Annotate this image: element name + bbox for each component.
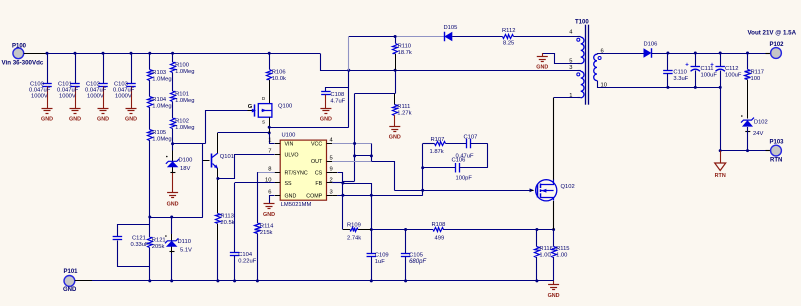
resistor R112 8.25 bbox=[452, 28, 577, 47]
svg-text:1000V: 1000V bbox=[115, 94, 132, 100]
svg-text:R109: R109 bbox=[347, 223, 361, 229]
pin 6 (GND) bbox=[268, 190, 280, 196]
pin 10 (SS) bbox=[265, 177, 280, 183]
resistor R100 1.0Meg bbox=[171, 53, 195, 75]
svg-text:1: 1 bbox=[569, 93, 572, 99]
svg-text:GND: GND bbox=[389, 135, 401, 141]
svg-text:R106: R106 bbox=[272, 70, 286, 76]
capacitor C104 0.22uF bbox=[230, 183, 257, 283]
svg-text:R105: R105 bbox=[152, 130, 166, 136]
svg-text:215k: 215k bbox=[260, 230, 273, 236]
wire: gate drive rail to Q102 bbox=[394, 188, 534, 192]
pin 5 (OUT) bbox=[327, 155, 333, 161]
wire: zener bias rail (C121/R121/D110 to base) bbox=[148, 216, 203, 219]
transistor Q100 (startup FET) bbox=[248, 80, 293, 125]
wire: FB pin 2 connection bbox=[332, 182, 373, 254]
svg-text:10: 10 bbox=[601, 83, 607, 89]
svg-text:100uF: 100uF bbox=[725, 73, 742, 79]
svg-text:ULVO: ULVO bbox=[285, 153, 299, 159]
resistor R117 100 bbox=[745, 53, 764, 119]
pin 7 (ULVO) bbox=[268, 149, 280, 155]
svg-text:20.5k: 20.5k bbox=[220, 220, 234, 226]
svg-text:2.74k: 2.74k bbox=[347, 236, 361, 242]
svg-text:R117: R117 bbox=[751, 70, 764, 76]
resistor R105 1.0Meg bbox=[148, 107, 172, 143]
svg-text:D105: D105 bbox=[444, 25, 458, 31]
wire: secondary return rail down to RTN bbox=[719, 86, 722, 152]
svg-text:1.0Meg: 1.0Meg bbox=[152, 77, 171, 83]
svg-text:8: 8 bbox=[268, 167, 271, 173]
svg-text:1.0Meg: 1.0Meg bbox=[175, 69, 194, 75]
transformer T100 core bbox=[575, 20, 589, 105]
port P102 (Vout terminal) bbox=[748, 30, 797, 59]
svg-text:1.0Meg: 1.0Meg bbox=[175, 98, 194, 104]
svg-text:D102: D102 bbox=[754, 120, 768, 126]
wire: sense rail bbox=[371, 228, 433, 231]
pin 9 (CS) bbox=[327, 167, 333, 173]
resistor R101 1.0Meg bbox=[171, 73, 195, 105]
svg-text:Vin 36-300Vdc: Vin 36-300Vdc bbox=[2, 60, 44, 67]
wire: output rail (Vout) bbox=[652, 52, 771, 55]
wire: SS line (pin 10) bbox=[235, 182, 281, 184]
svg-text:R115: R115 bbox=[556, 246, 569, 252]
resistor R121 205k bbox=[148, 238, 166, 283]
wire: HV input bus (top rail) bbox=[46, 52, 321, 55]
ground (below C101) bbox=[69, 97, 81, 123]
svg-text:1.87k: 1.87k bbox=[430, 149, 444, 155]
resistor R114 215k bbox=[255, 224, 275, 283]
svg-text:100uF: 100uF bbox=[701, 73, 718, 79]
svg-text:R108: R108 bbox=[432, 222, 446, 228]
svg-text:24V: 24V bbox=[753, 131, 763, 137]
svg-text:GND: GND bbox=[167, 202, 179, 208]
resistor R111 1.27k bbox=[355, 70, 412, 126]
wire: Q102 source to sense resistors bbox=[553, 201, 555, 230]
svg-text:+: + bbox=[710, 63, 714, 69]
svg-text:1000V: 1000V bbox=[87, 94, 104, 100]
capacitor C102 0.047uF 1000V bbox=[85, 53, 108, 99]
svg-text:C106: C106 bbox=[452, 158, 466, 164]
svg-text:7: 7 bbox=[268, 149, 271, 155]
transformer T100 aux winding (pins 4-5) bbox=[569, 30, 584, 65]
ground (below C108) bbox=[320, 109, 332, 123]
svg-text:S: S bbox=[262, 119, 265, 124]
port P100 (Vin input terminal) bbox=[2, 44, 48, 67]
capacitor C105 680pF bbox=[401, 230, 427, 283]
wire: ULVO line (pin 7) to Q101 emitter bbox=[218, 155, 281, 179]
capacitor C112 100uF bbox=[710, 53, 742, 87]
svg-text:RTN: RTN bbox=[715, 173, 726, 179]
resistor R116 1.00 bbox=[535, 230, 553, 283]
svg-text:G: G bbox=[248, 104, 253, 110]
port P101 (GND terminal) bbox=[63, 269, 92, 293]
pin 1 (VIN) bbox=[268, 138, 280, 144]
capacitor C111 100uF bbox=[685, 53, 717, 87]
svg-text:GND: GND bbox=[97, 117, 109, 123]
wire: Q101 emitter node bbox=[216, 168, 219, 213]
svg-text:P103: P103 bbox=[770, 140, 785, 146]
svg-text:100: 100 bbox=[751, 76, 761, 82]
svg-text:C110: C110 bbox=[673, 70, 686, 76]
svg-text:R111: R111 bbox=[397, 104, 410, 110]
wire: Q102 drain to transformer pin 1 bbox=[554, 98, 578, 180]
diode D105 bbox=[444, 25, 458, 41]
svg-text:R100: R100 bbox=[175, 63, 189, 69]
svg-text:R116: R116 bbox=[539, 246, 552, 252]
svg-text:RTN: RTN bbox=[770, 158, 782, 164]
port P103 (RTN terminal) bbox=[770, 140, 785, 164]
svg-text:R121: R121 bbox=[152, 238, 166, 244]
svg-text:R103: R103 bbox=[152, 70, 166, 76]
capacitor C108 4.7uF bbox=[321, 88, 348, 109]
svg-text:1.0Meg: 1.0Meg bbox=[152, 137, 171, 143]
svg-text:U100: U100 bbox=[282, 133, 296, 139]
pin 4 (VCC) bbox=[327, 138, 334, 144]
resistor R107 1.87k bbox=[423, 137, 467, 155]
transistor Q101 (NPN) bbox=[212, 153, 234, 169]
op-amp U100 LM5021MM (PWM controller) bbox=[280, 133, 326, 208]
wire: R105 down to bias box bbox=[149, 140, 151, 237]
svg-text:R110: R110 bbox=[398, 44, 411, 50]
svg-text:Q102: Q102 bbox=[561, 184, 575, 190]
svg-text:5.1V: 5.1V bbox=[180, 248, 192, 254]
pin 2 (FB) bbox=[327, 177, 333, 183]
svg-text:R112: R112 bbox=[502, 28, 515, 34]
svg-text:GND: GND bbox=[285, 193, 297, 199]
svg-text:LM5021MM: LM5021MM bbox=[281, 202, 312, 208]
diode D106 bbox=[644, 42, 658, 58]
wire: CS pin 9 connection bbox=[332, 173, 344, 230]
resistor R115 1.00 bbox=[552, 230, 570, 281]
ground (below C100) bbox=[41, 97, 53, 123]
svg-text:D100: D100 bbox=[179, 158, 193, 164]
wire: COMP pin 3 connection bbox=[332, 190, 423, 195]
svg-text:GND: GND bbox=[69, 117, 81, 123]
capacitor C110 3.3uF bbox=[663, 53, 689, 87]
svg-text:R102: R102 bbox=[175, 119, 189, 125]
svg-text:1.00: 1.00 bbox=[556, 253, 567, 259]
svg-text:RT/SYNC: RT/SYNC bbox=[285, 170, 308, 176]
svg-text:8.25: 8.25 bbox=[503, 41, 514, 47]
resistor R108 499 bbox=[432, 222, 556, 242]
svg-text:Q101: Q101 bbox=[220, 154, 234, 160]
wire: D100 junction to Q101 base / gate jog bbox=[173, 111, 248, 218]
svg-text:499: 499 bbox=[435, 236, 445, 242]
svg-text:9: 9 bbox=[330, 167, 333, 173]
resistor R109 2.74k bbox=[343, 223, 371, 242]
transformer T100 secondary winding (pins 6-10) bbox=[594, 49, 721, 89]
svg-text:205k: 205k bbox=[152, 244, 165, 250]
svg-text:OUT: OUT bbox=[311, 159, 323, 165]
svg-text:6: 6 bbox=[268, 190, 271, 196]
svg-text:C105: C105 bbox=[409, 253, 423, 259]
wire: OUT pin 5 to gate drive bbox=[332, 156, 394, 190]
svg-text:R104: R104 bbox=[152, 97, 167, 103]
wire: Q101 collector to U100 VIN bbox=[218, 131, 281, 153]
ground (below R111) bbox=[389, 127, 401, 141]
svg-text:10.0k: 10.0k bbox=[272, 76, 286, 82]
svg-text:4.7uF: 4.7uF bbox=[330, 99, 345, 105]
svg-text:C107: C107 bbox=[464, 135, 478, 141]
svg-text:1000V: 1000V bbox=[31, 94, 48, 100]
svg-text:R113: R113 bbox=[220, 214, 233, 220]
capacitor C100 0.047uF 1000V bbox=[29, 53, 52, 99]
svg-text:COMP: COMP bbox=[306, 193, 322, 199]
svg-text:10: 10 bbox=[265, 177, 271, 183]
svg-text:GND: GND bbox=[536, 65, 548, 71]
capacitor C109 1uF bbox=[367, 253, 389, 283]
svg-text:SS: SS bbox=[285, 181, 293, 187]
svg-text:18V: 18V bbox=[180, 166, 190, 172]
wire: compensation network sides bbox=[421, 144, 487, 191]
svg-text:680pF: 680pF bbox=[409, 259, 426, 265]
svg-text:0.22uF: 0.22uF bbox=[238, 259, 257, 265]
svg-text:R101: R101 bbox=[175, 92, 189, 98]
pin 3 (COMP) bbox=[327, 190, 333, 196]
wire: VCC rail from Q100 source to D105 bbox=[269, 35, 444, 128]
resistor R106 10.0k bbox=[267, 53, 286, 82]
ground (IC pin 6) bbox=[263, 204, 275, 219]
svg-text:1.0Meg: 1.0Meg bbox=[175, 125, 194, 131]
svg-text:CS: CS bbox=[315, 170, 323, 176]
svg-text:T100: T100 bbox=[575, 20, 589, 26]
svg-text:3.3uF: 3.3uF bbox=[673, 76, 688, 82]
wire: Q100 source to VIN/VCC node bbox=[268, 117, 271, 133]
ground (below C103) bbox=[125, 97, 137, 123]
svg-text:R107: R107 bbox=[431, 137, 445, 143]
svg-text:6: 6 bbox=[601, 49, 604, 55]
svg-text:5: 5 bbox=[569, 59, 572, 65]
wire: aux winding return to ground bbox=[543, 53, 578, 63]
wire: IC ground pin elbow bbox=[270, 196, 275, 204]
pin 8 (RT/SYNC) bbox=[268, 167, 280, 173]
resistor R102 1.0Meg bbox=[171, 102, 195, 132]
svg-text:1.27k: 1.27k bbox=[397, 111, 411, 117]
svg-text:C104: C104 bbox=[238, 252, 253, 258]
capacitor C101 0.047uF 1000V bbox=[57, 53, 80, 99]
svg-text:P101: P101 bbox=[64, 269, 79, 275]
svg-text:P100: P100 bbox=[12, 44, 27, 50]
svg-text:1.0Meg: 1.0Meg bbox=[152, 104, 171, 110]
svg-text:GND: GND bbox=[63, 287, 77, 293]
wire: VCC pin 4 connection bbox=[332, 94, 373, 181]
svg-text:3: 3 bbox=[569, 65, 572, 71]
resistor R103 1.0Meg bbox=[148, 53, 172, 82]
svg-text:3: 3 bbox=[330, 190, 333, 196]
svg-text:1000V: 1000V bbox=[59, 94, 76, 100]
svg-text:+: + bbox=[685, 63, 689, 69]
svg-text:1.00: 1.00 bbox=[539, 253, 550, 259]
wire: RT/SYNC line (pin 8) bbox=[257, 172, 280, 223]
capacitor C121 0.33uF bbox=[113, 225, 150, 267]
svg-text:GND: GND bbox=[548, 293, 560, 299]
zener diode D110 5.1V bbox=[165, 217, 192, 282]
svg-text:18.7k: 18.7k bbox=[398, 50, 412, 56]
transformer T100 primary winding (pins 3-1) bbox=[569, 65, 584, 99]
wire: bus step-down to primary rail bbox=[321, 54, 578, 72]
zener diode D102 24V bbox=[741, 115, 768, 152]
wire: RTN rail bbox=[720, 150, 771, 152]
svg-text:1uF: 1uF bbox=[375, 259, 385, 265]
zener diode D100 18V bbox=[166, 144, 193, 173]
svg-text:C121: C121 bbox=[132, 236, 146, 242]
svg-text:GND: GND bbox=[320, 117, 332, 123]
ground (power return) bbox=[548, 281, 560, 299]
capacitor C107 0.47uF bbox=[456, 135, 488, 160]
svg-text:R114: R114 bbox=[260, 224, 274, 230]
capacitor C103 0.047uF 1000V bbox=[113, 53, 136, 99]
svg-text:100pF: 100pF bbox=[456, 176, 473, 182]
svg-text:C112: C112 bbox=[725, 66, 738, 72]
svg-text:GND: GND bbox=[41, 117, 53, 123]
svg-text:5: 5 bbox=[330, 155, 333, 161]
svg-text:GND: GND bbox=[125, 117, 137, 123]
capacitor C106 100pF bbox=[423, 158, 488, 182]
resistor R113 20.5k bbox=[216, 214, 235, 283]
svg-text:VCC: VCC bbox=[311, 142, 322, 148]
transistor Q102 (power MOSFET) bbox=[531, 180, 575, 201]
ground (below C102) bbox=[97, 97, 109, 123]
svg-text:0.33uF: 0.33uF bbox=[131, 242, 150, 248]
svg-text:VIN: VIN bbox=[285, 142, 294, 148]
ground RTN (return symbol) bbox=[715, 151, 726, 179]
ground (aux winding) bbox=[536, 57, 548, 71]
svg-text:C109: C109 bbox=[375, 253, 389, 259]
svg-text:P102: P102 bbox=[770, 42, 785, 48]
svg-text:D110: D110 bbox=[178, 239, 191, 245]
svg-text:1: 1 bbox=[268, 138, 271, 144]
resistor R110 18.7k bbox=[393, 37, 412, 71]
svg-text:Q100: Q100 bbox=[278, 104, 292, 110]
wire: primary ground rail bbox=[92, 280, 554, 282]
svg-text:GND: GND bbox=[263, 212, 275, 218]
svg-text:Vout 21V @ 1.5A: Vout 21V @ 1.5A bbox=[748, 30, 797, 37]
node: D100 junction bbox=[171, 129, 174, 146]
svg-text:D106: D106 bbox=[644, 42, 658, 48]
resistor R104 1.0Meg bbox=[148, 80, 172, 110]
ground (below D100) bbox=[167, 173, 179, 208]
svg-text:FB: FB bbox=[315, 181, 322, 187]
svg-text:C108: C108 bbox=[330, 92, 344, 98]
